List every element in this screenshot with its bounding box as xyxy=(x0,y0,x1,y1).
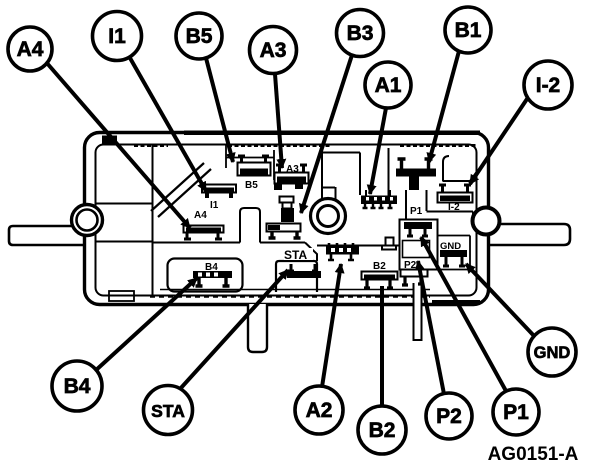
svg-text:B5: B5 xyxy=(186,25,213,48)
svg-text:GND: GND xyxy=(534,344,571,362)
svg-text:STA: STA xyxy=(284,248,307,262)
svg-text:B2: B2 xyxy=(369,419,396,442)
svg-text:I1: I1 xyxy=(108,25,126,48)
svg-text:B2: B2 xyxy=(373,261,386,272)
svg-text:P1: P1 xyxy=(410,206,423,217)
svg-text:I-2: I-2 xyxy=(536,74,561,97)
svg-text:A1: A1 xyxy=(375,74,402,97)
svg-text:A4: A4 xyxy=(194,210,207,221)
svg-text:B1: B1 xyxy=(455,19,482,42)
svg-text:P2: P2 xyxy=(436,405,462,428)
svg-text:A3: A3 xyxy=(286,164,299,175)
svg-text:B5: B5 xyxy=(245,180,258,191)
svg-text:A2: A2 xyxy=(306,399,333,422)
svg-text:B3: B3 xyxy=(347,22,374,45)
svg-text:I-2: I-2 xyxy=(448,202,460,213)
svg-text:P1: P1 xyxy=(503,401,529,424)
svg-text:A4: A4 xyxy=(17,38,44,61)
svg-text:B4: B4 xyxy=(64,375,91,398)
svg-text:STA: STA xyxy=(151,401,185,421)
svg-text:AG0151-A: AG0151-A xyxy=(488,444,579,465)
svg-text:I1: I1 xyxy=(210,200,219,211)
svg-text:A3: A3 xyxy=(260,39,287,62)
